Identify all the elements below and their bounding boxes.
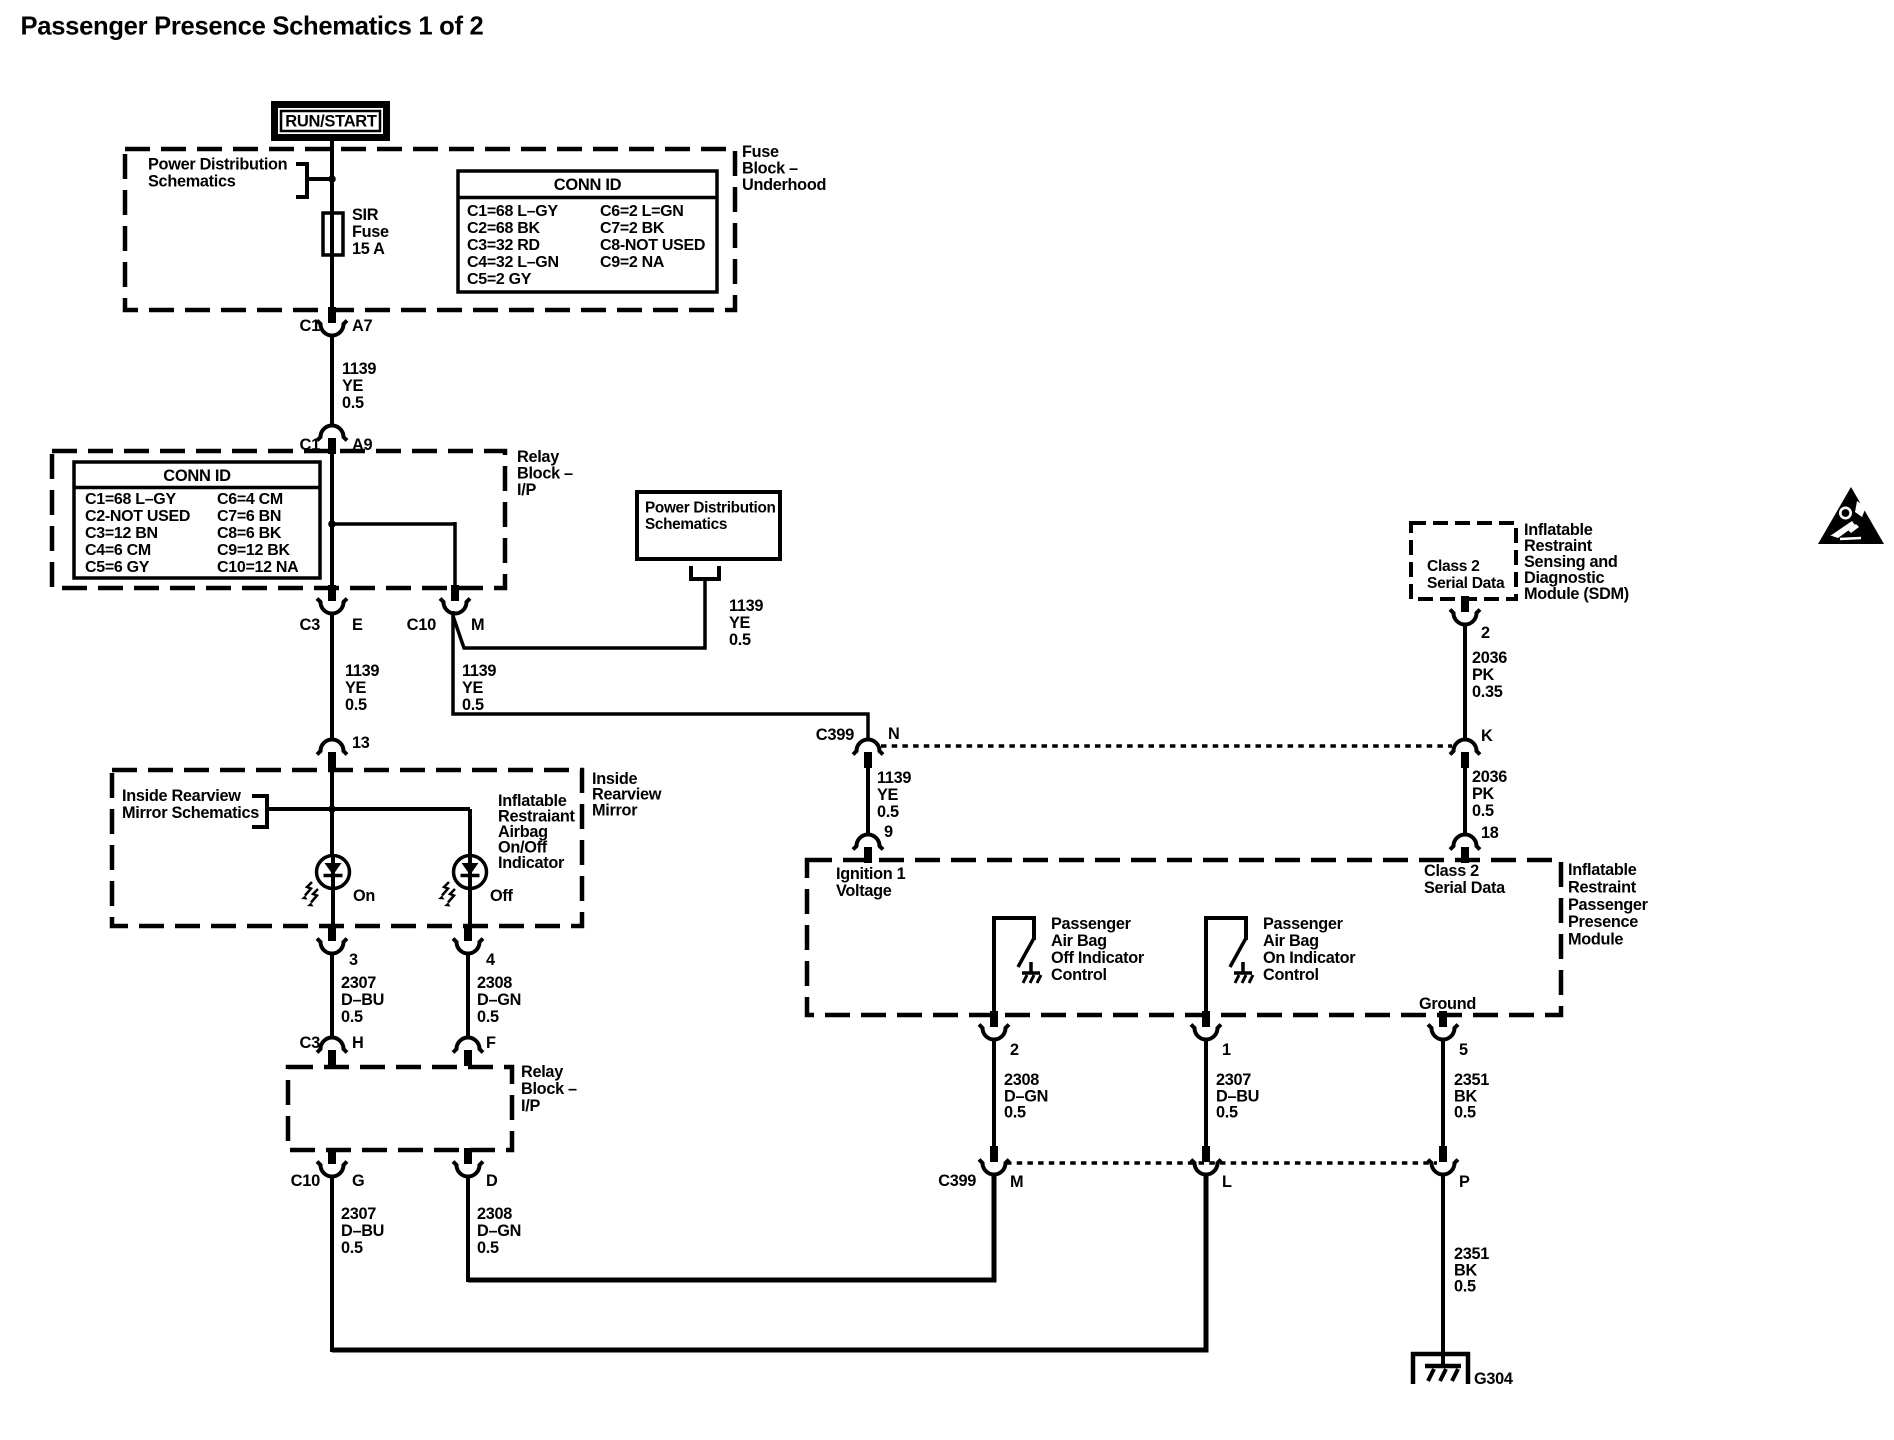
svg-text:1: 1	[1222, 1041, 1231, 1059]
svg-text:Passenger Presence Schematics: Passenger Presence Schematics 1 of 2	[21, 13, 484, 41]
svg-text:1139: 1139	[345, 662, 379, 680]
svg-text:Block –: Block –	[517, 465, 573, 483]
svg-text:3: 3	[349, 951, 358, 969]
svg-text:18: 18	[1481, 824, 1499, 842]
svg-text:Relay: Relay	[521, 1063, 563, 1081]
svg-text:2351: 2351	[1454, 1245, 1489, 1263]
svg-text:2036: 2036	[1472, 649, 1507, 667]
svg-text:C1=68 L–GY: C1=68 L–GY	[467, 203, 558, 220]
svg-text:BK: BK	[1454, 1087, 1477, 1105]
svg-text:C8-NOT USED: C8-NOT USED	[600, 237, 705, 254]
svg-text:YE: YE	[345, 679, 367, 697]
svg-text:E: E	[352, 616, 363, 634]
svg-text:C4=6 CM: C4=6 CM	[85, 542, 151, 559]
svg-text:2308: 2308	[477, 1205, 512, 1223]
svg-text:Module (SDM): Module (SDM)	[1524, 585, 1629, 603]
svg-text:Restraint: Restraint	[1568, 878, 1637, 896]
svg-text:2: 2	[1010, 1041, 1019, 1059]
svg-text:2307: 2307	[341, 1205, 376, 1223]
svg-text:C6=2 L=GN: C6=2 L=GN	[600, 203, 684, 220]
svg-text:1139: 1139	[729, 597, 763, 615]
svg-text:C7=6 BN: C7=6 BN	[217, 508, 281, 525]
svg-text:Serial Data: Serial Data	[1424, 879, 1506, 897]
svg-text:Air Bag: Air Bag	[1263, 932, 1319, 950]
svg-text:Ground: Ground	[1419, 995, 1476, 1013]
svg-text:2036: 2036	[1472, 768, 1507, 786]
svg-text:1139: 1139	[342, 360, 376, 378]
svg-text:F: F	[486, 1034, 496, 1052]
svg-text:0.5: 0.5	[345, 696, 367, 714]
svg-text:C9=2 NA: C9=2 NA	[600, 254, 665, 271]
svg-text:2: 2	[1481, 624, 1490, 642]
svg-text:Mirror Schematics: Mirror Schematics	[122, 804, 259, 822]
svg-text:Inside Rearview: Inside Rearview	[122, 787, 241, 805]
svg-text:Air Bag: Air Bag	[1051, 932, 1107, 950]
svg-text:D–GN: D–GN	[1004, 1087, 1048, 1105]
svg-text:A7: A7	[352, 317, 372, 335]
svg-text:0.5: 0.5	[477, 1008, 499, 1026]
svg-text:Inflatable: Inflatable	[1568, 861, 1637, 879]
svg-text:Power Distribution: Power Distribution	[645, 500, 776, 517]
svg-text:Control: Control	[1051, 966, 1107, 984]
svg-text:0.5: 0.5	[877, 803, 899, 821]
svg-text:0.35: 0.35	[1472, 683, 1503, 701]
svg-text:2307: 2307	[1216, 1071, 1251, 1089]
svg-text:Passenger: Passenger	[1051, 915, 1132, 933]
svg-text:D–BU: D–BU	[341, 991, 384, 1009]
svg-text:N: N	[888, 725, 899, 743]
svg-text:0.5: 0.5	[1454, 1278, 1476, 1296]
svg-text:Serial Data: Serial Data	[1427, 575, 1505, 592]
svg-text:0.5: 0.5	[729, 631, 751, 649]
svg-text:D–BU: D–BU	[1216, 1087, 1259, 1105]
svg-text:C4=32 L–GN: C4=32 L–GN	[467, 254, 559, 271]
svg-text:L: L	[1222, 1173, 1232, 1191]
svg-text:Off Indicator: Off Indicator	[1051, 949, 1145, 967]
svg-text:M: M	[1010, 1173, 1023, 1191]
svg-text:G: G	[352, 1172, 364, 1190]
svg-text:D–GN: D–GN	[477, 1222, 521, 1240]
svg-text:13: 13	[352, 734, 370, 752]
svg-text:C6=4 CM: C6=4 CM	[217, 491, 283, 508]
svg-text:D–BU: D–BU	[341, 1222, 384, 1240]
svg-text:PK: PK	[1472, 785, 1495, 803]
svg-text:Voltage: Voltage	[836, 882, 892, 900]
svg-text:Ignition 1: Ignition 1	[836, 865, 906, 883]
svg-text:C2=68 BK: C2=68 BK	[467, 220, 540, 237]
svg-text:C3: C3	[300, 616, 321, 634]
svg-text:D–GN: D–GN	[477, 991, 521, 1009]
svg-text:Module: Module	[1568, 931, 1623, 949]
svg-text:0.5: 0.5	[1454, 1104, 1476, 1122]
svg-text:0.5: 0.5	[342, 394, 364, 412]
svg-text:Block –: Block –	[742, 160, 798, 178]
svg-text:On: On	[353, 887, 375, 905]
svg-text:4: 4	[486, 951, 495, 969]
svg-text:C9=12 BK: C9=12 BK	[217, 542, 290, 559]
svg-text:C5=6 GY: C5=6 GY	[85, 559, 150, 576]
svg-text:Passenger: Passenger	[1263, 915, 1344, 933]
svg-text:YE: YE	[462, 679, 484, 697]
svg-text:Fuse: Fuse	[742, 143, 779, 161]
svg-text:C10: C10	[407, 616, 436, 634]
svg-text:Mirror: Mirror	[592, 801, 638, 819]
svg-text:2308: 2308	[477, 974, 512, 992]
svg-text:Passenger: Passenger	[1568, 896, 1649, 914]
svg-text:BK: BK	[1454, 1261, 1477, 1279]
svg-text:M: M	[471, 616, 484, 634]
svg-text:Indicator: Indicator	[498, 854, 565, 872]
svg-text:C10=12 NA: C10=12 NA	[217, 559, 299, 576]
svg-text:5: 5	[1459, 1041, 1468, 1059]
svg-text:YE: YE	[729, 614, 751, 632]
svg-text:0.5: 0.5	[462, 696, 484, 714]
svg-text:C1: C1	[300, 317, 321, 335]
svg-text:CONN ID: CONN ID	[554, 176, 622, 194]
svg-text:C5=2 GY: C5=2 GY	[467, 271, 532, 288]
svg-text:Block –: Block –	[521, 1080, 577, 1098]
svg-text:0.5: 0.5	[1472, 802, 1494, 820]
svg-text:C3=32 RD: C3=32 RD	[467, 237, 540, 254]
svg-text:CONN ID: CONN ID	[163, 467, 231, 485]
svg-text:C399: C399	[938, 1172, 976, 1190]
svg-text:Presence: Presence	[1568, 913, 1638, 931]
svg-text:Underhood: Underhood	[742, 176, 826, 194]
svg-text:K: K	[1481, 727, 1493, 745]
svg-text:9: 9	[884, 823, 893, 841]
svg-text:Schematics: Schematics	[645, 516, 727, 533]
svg-text:C7=2 BK: C7=2 BK	[600, 220, 665, 237]
svg-text:Class 2: Class 2	[1427, 558, 1480, 575]
svg-text:H: H	[352, 1034, 363, 1052]
svg-text:P: P	[1459, 1173, 1470, 1191]
svg-text:1139: 1139	[462, 662, 496, 680]
svg-text:SIR: SIR	[352, 206, 379, 224]
svg-text:YE: YE	[342, 377, 364, 395]
svg-text:0.5: 0.5	[1004, 1104, 1026, 1122]
svg-text:PK: PK	[1472, 666, 1495, 684]
svg-text:On Indicator: On Indicator	[1263, 949, 1356, 967]
svg-text:0.5: 0.5	[1216, 1104, 1238, 1122]
svg-text:D: D	[486, 1172, 498, 1190]
svg-text:0.5: 0.5	[477, 1239, 499, 1257]
svg-text:RUN/START: RUN/START	[285, 113, 377, 131]
svg-text:C2-NOT USED: C2-NOT USED	[85, 508, 190, 525]
svg-text:2308: 2308	[1004, 1071, 1039, 1089]
svg-text:C1=68 L–GY: C1=68 L–GY	[85, 491, 176, 508]
svg-text:Fuse: Fuse	[352, 223, 389, 241]
svg-text:2307: 2307	[341, 974, 376, 992]
svg-text:15 A: 15 A	[352, 240, 385, 258]
svg-text:0.5: 0.5	[341, 1239, 363, 1257]
svg-text:Power Distribution: Power Distribution	[148, 156, 287, 174]
svg-text:C399: C399	[816, 726, 854, 744]
svg-text:I/P: I/P	[521, 1097, 540, 1115]
svg-text:Class 2: Class 2	[1424, 862, 1479, 880]
svg-text:Control: Control	[1263, 966, 1319, 984]
svg-text:G304: G304	[1474, 1370, 1513, 1388]
svg-text:YE: YE	[877, 786, 899, 804]
svg-text:Off: Off	[490, 887, 513, 905]
svg-text:C10: C10	[291, 1172, 320, 1190]
svg-text:C3=12 BN: C3=12 BN	[85, 525, 158, 542]
svg-text:C3: C3	[300, 1034, 321, 1052]
svg-text:Relay: Relay	[517, 448, 559, 466]
svg-text:I/P: I/P	[517, 481, 536, 499]
svg-text:1139: 1139	[877, 769, 911, 787]
svg-text:0.5: 0.5	[341, 1008, 363, 1026]
svg-text:C8=6 BK: C8=6 BK	[217, 525, 282, 542]
svg-text:Schematics: Schematics	[148, 173, 236, 191]
svg-text:2351: 2351	[1454, 1071, 1489, 1089]
